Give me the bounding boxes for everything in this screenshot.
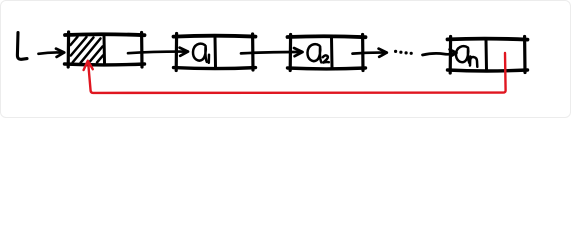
node a2 box <box>288 35 366 71</box>
head node box <box>65 32 145 67</box>
text an <box>456 46 477 67</box>
text a2 <box>307 44 328 62</box>
ellipsis dots <box>394 50 413 55</box>
arrow a2 to ellipsis <box>353 49 387 57</box>
wire ellipsis to an <box>423 49 457 56</box>
node a1 box <box>174 34 256 71</box>
node an box <box>448 37 528 74</box>
hatch fill of head data cell <box>71 37 104 63</box>
red arrowhead into head node <box>84 61 93 70</box>
arrow a1 to a2 <box>241 48 303 56</box>
red circular link wire an back to head <box>88 53 505 93</box>
arrow L to head node <box>39 49 65 57</box>
label L <box>17 33 27 60</box>
text a1 <box>193 44 209 63</box>
arrow head node to a1 <box>128 48 188 56</box>
